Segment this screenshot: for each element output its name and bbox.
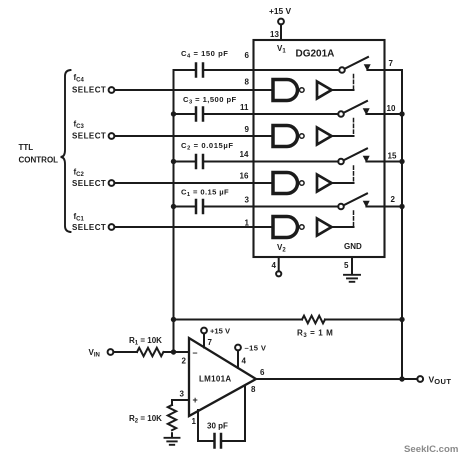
junction switch3 out [399,159,404,164]
select wire fC2 [114,182,271,184]
svg-text:1: 1 [192,417,197,426]
select terminal fC1 [109,224,115,230]
svg-text:VOUT: VOUT [429,375,452,387]
right output bus wire [401,70,403,379]
svg-text:7: 7 [389,59,394,68]
svg-text:R2 = 10K: R2 = 10K [129,414,162,425]
gate driver ch2 [273,126,354,147]
svg-text:7: 7 [208,338,213,347]
svg-text:R3 = 1 M: R3 = 1 M [297,329,333,340]
svg-text:5: 5 [344,261,349,270]
svg-text:+: + [193,395,198,405]
svg-text:14: 14 [240,150,249,159]
dashed control wire ch2 [353,119,355,137]
junction R3 right [399,317,404,322]
svg-text:DG201A: DG201A [296,49,335,60]
svg-text:GND: GND [344,242,362,251]
svg-text:3: 3 [180,390,185,399]
svg-text:SELECT: SELECT [72,179,106,188]
switch S3 (pins 14-15) [338,149,402,165]
wire non-inverting input [172,400,189,405]
ground (pin 5) [344,275,360,282]
wire R2 to ground [171,433,173,437]
capacitor C2 [174,155,339,168]
svg-text:R1 = 10K: R1 = 10K [129,336,162,347]
svg-text:CONTROL: CONTROL [19,156,59,165]
svg-text:SELECT: SELECT [72,86,106,95]
TTL control brace [61,70,71,232]
svg-text:16: 16 [240,172,249,181]
resistor R1 [113,348,189,356]
capacitor C1 [174,200,339,213]
svg-text:SeekIC.com: SeekIC.com [404,444,458,455]
switch S1 (pins 6-7) [339,57,402,73]
svg-text:SELECT: SELECT [72,132,106,141]
select wire fC4 [114,89,271,91]
dashed control wire ch1 [353,75,355,91]
svg-text:9: 9 [245,125,250,134]
svg-text:2: 2 [391,195,396,204]
svg-text:+15 V: +15 V [269,6,292,16]
svg-text:13: 13 [270,30,279,39]
VIN terminal [108,349,114,355]
select terminal fC4 [109,87,115,93]
gate driver ch3 [273,173,354,194]
-15V supply terminal (op-amp pin 4) [235,345,241,351]
svg-text:LM101A: LM101A [199,375,231,384]
wire pin 4 [237,350,239,368]
junction R3 left [171,317,176,322]
junction C2 [171,159,176,164]
select wire fC1 [114,226,271,228]
svg-text:2: 2 [182,357,187,366]
svg-text:6: 6 [245,51,250,60]
svg-text:6: 6 [260,368,265,377]
wire output [256,378,417,380]
select wire fC3 [114,135,271,137]
gate driver ch4 [273,217,354,238]
dashed control wire ch4 [353,211,355,227]
resistor R2 [168,405,176,430]
svg-text:3: 3 [245,196,250,205]
svg-text:8: 8 [251,385,256,394]
junction C1 [171,204,176,209]
junction output line [399,376,404,381]
IC U1 DG201A outline [254,40,385,257]
pin 4 stub and terminal [278,257,280,271]
junction switch4 out [399,204,404,209]
svg-text:4: 4 [242,357,247,366]
svg-text:TTL: TTL [19,143,34,152]
junction C3 [171,111,176,116]
svg-text:+15 V: +15 V [210,327,231,336]
svg-text:8: 8 [245,78,250,87]
switch S4 (pins 3-2) [338,194,402,210]
wire pin 7 [203,333,205,347]
svg-text:1: 1 [245,219,250,228]
svg-text:SELECT: SELECT [72,223,106,232]
wire +15V to pin 13 [280,24,282,40]
select terminal fC2 [109,180,115,186]
svg-text:30 pF: 30 pF [207,422,228,431]
resistor R3 [174,316,403,324]
junction switch2 out [399,111,404,116]
svg-text:–: – [193,348,198,358]
svg-text:4: 4 [272,261,277,270]
capacitor C4 [196,64,339,77]
VOUT terminal [417,376,423,382]
capacitor C3 [174,108,339,121]
left summing bus wire (caps to op-amp input) [174,70,197,352]
compensation capacitor 30 pF [198,386,245,448]
svg-text:10: 10 [387,104,396,113]
svg-text:–15 V: –15 V [245,344,267,353]
+15V supply terminal (top) [278,19,284,25]
svg-text:15: 15 [388,152,397,161]
op-amp U2 LM101A [189,338,256,416]
svg-text:11: 11 [240,103,249,112]
ground (R2) [165,438,180,445]
+15V supply terminal (op-amp pin 7) [201,328,207,334]
dashed control wire ch3 [353,166,355,183]
select terminal fC3 [109,133,115,139]
pin 5 stub [351,257,353,275]
switch S2 (pins 11-10) [338,101,402,117]
gate driver ch1 [273,80,354,101]
junction R1 / inverting input [171,349,176,354]
